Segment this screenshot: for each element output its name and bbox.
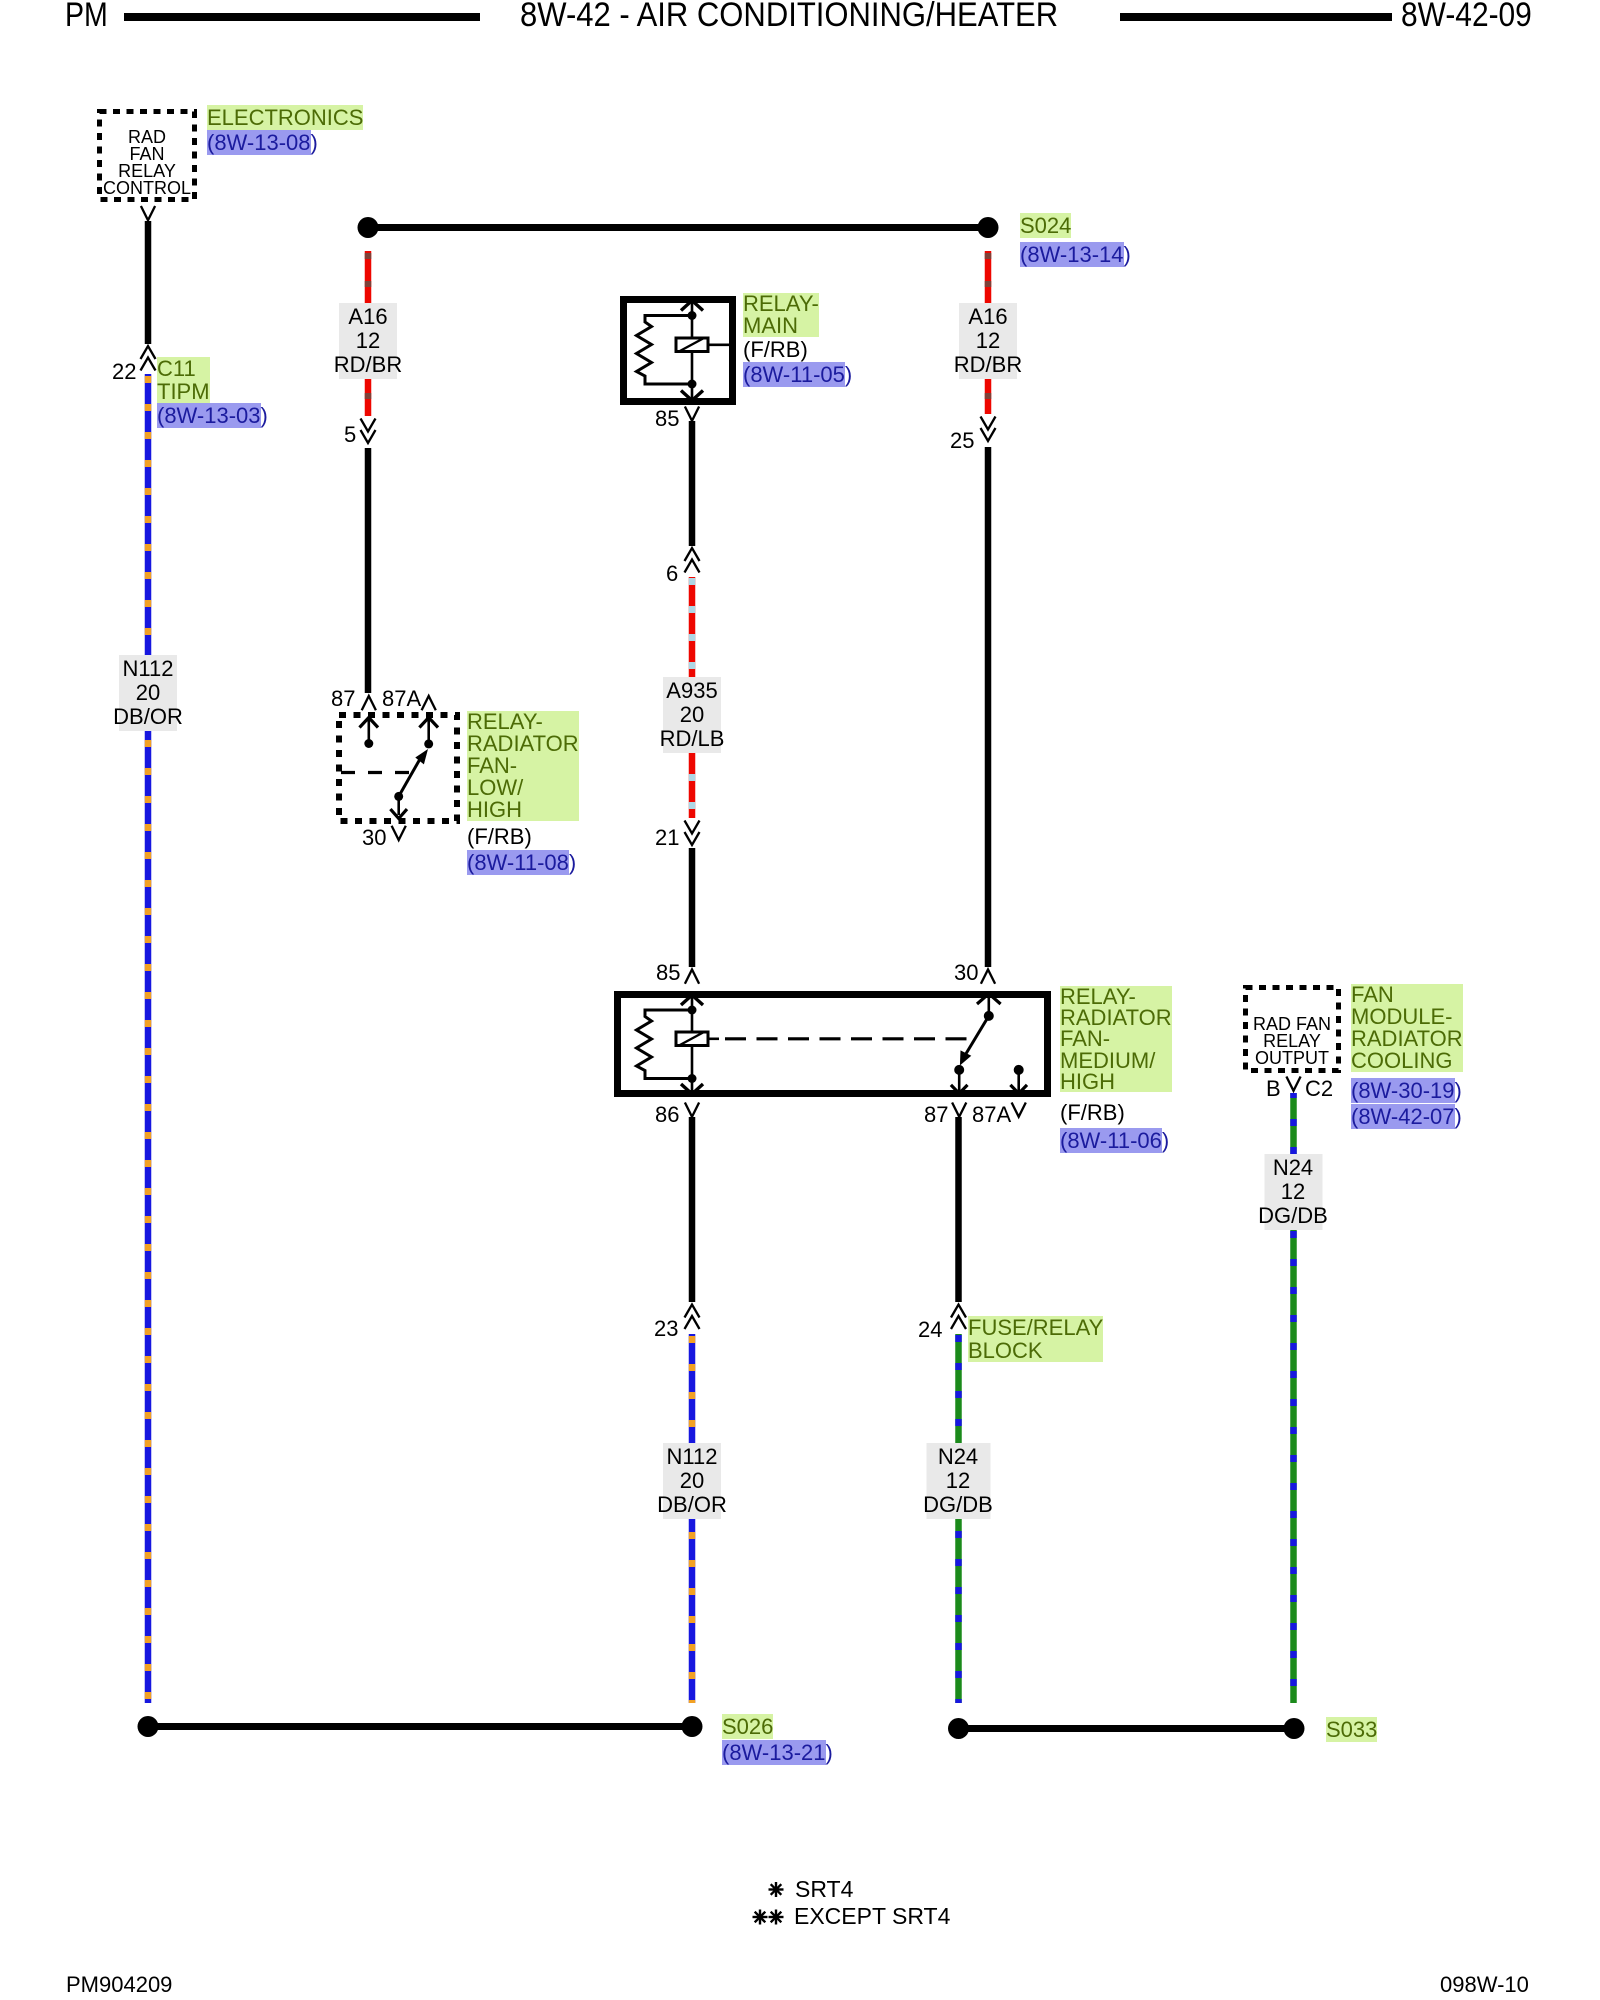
pin number 5 (344, 423, 356, 446)
node S033 left dot (948, 1718, 969, 1739)
pin number 22 (112, 360, 136, 383)
wire A16 12 RD/BR left (red with brown tracer) (365, 251, 372, 416)
relay K3 coil bottom arrow (681, 1084, 703, 1094)
label (F/RB) relay K1 (743, 338, 808, 361)
relay K2 RELAY-RADIATOR FAN-LOW/HIGH dashed box (339, 715, 457, 821)
ref (8W-11-06) (1060, 1129, 1169, 1152)
connector pin 5 double chevron (361, 419, 376, 444)
connector U1 RAD FAN RELAY CONTROL dashed box (100, 112, 195, 200)
relay K2 pin 30 lead (394, 792, 403, 801)
pin number 30 relay K3 (954, 961, 978, 984)
header label PM (65, 0, 108, 32)
wire N24 12 DG/DB left (dark green with dark blue tracer) (955, 1334, 962, 1703)
gray label bg N24 12 DG/DB left (927, 1443, 991, 1519)
wire label N112 20 DB/OR center (657, 1445, 727, 1517)
pin number 86 relay K3 (655, 1103, 679, 1126)
wire N24 12 DG/DB right (dark green with dark blue tracer) (1290, 1093, 1297, 1703)
header title (520, 0, 1058, 32)
wire label A935 20 RD/LB (660, 679, 725, 751)
node S026 left dot (138, 1716, 159, 1737)
label (F/RB) relay K3 (1060, 1101, 1125, 1124)
wire black from RAD FAN RELAY CONTROL pin 22 (145, 221, 152, 344)
connector pin 23 double chevron (685, 1305, 700, 1330)
relay K3 mechanical dashed link (725, 1037, 975, 1040)
note asterisk SRT4 (769, 1882, 784, 1897)
wire A16 12 RD/BR right (red with brown tracer) (985, 251, 992, 414)
node S033 right dot (1284, 1718, 1305, 1739)
label (F/RB) relay K2 (467, 825, 532, 848)
gray label bg N112 20 DB/OR center (663, 1443, 721, 1519)
pin 30 chevron below relay K2 (392, 826, 406, 840)
relay K1 coil right lead (708, 343, 731, 346)
ref (8W-42-07) (1351, 1105, 1462, 1128)
pin number 30 relay K2 (362, 826, 386, 849)
pin 87A chevron above relay K2 (422, 696, 436, 710)
pin 85 chevron below relay K1 (685, 407, 699, 421)
splice bus S024 top (368, 224, 988, 231)
pin number 23 (654, 1317, 678, 1340)
pin 87A chevron below relay K3 (1012, 1103, 1026, 1117)
label C11 TIPM (157, 357, 210, 403)
relay K3 coil symbol (676, 1032, 708, 1046)
pin 87 chevron below relay K3 (952, 1103, 966, 1117)
gray label bg A16 12 RD/BR left (339, 303, 397, 379)
relay K2 switch blade (399, 756, 422, 797)
pin 87 chevron above relay K2 (362, 696, 376, 710)
relay K1 bottom arrow (681, 391, 703, 401)
wire black S024 to relay K3 pin 30 (985, 447, 992, 967)
relay K3 pin 87 lead (954, 1065, 964, 1075)
wire black relay K3 pin 86 down (689, 1117, 696, 1302)
relay K1 coil vertical lead (691, 302, 694, 399)
relay K3 pin 87A lead (1014, 1065, 1024, 1075)
splice bus S033 (959, 1725, 1295, 1732)
label ELECTRONICS (207, 106, 363, 129)
pin 86 chevron below relay K3 (685, 1103, 699, 1117)
wire label A16 12 RD/BR left (334, 305, 402, 377)
footer left PM904209 (66, 1973, 172, 1996)
note EXCEPT SRT4 (794, 1903, 950, 1929)
wire A935 20 RD/LB (red with light blue tracer) (689, 577, 696, 818)
connector pin 6 double chevron (685, 548, 700, 573)
relay K1 RELAY-MAIN box (624, 300, 733, 402)
relay K1 coil top node (688, 311, 697, 320)
relay K1 top arrow (681, 301, 703, 311)
node S024 left dot (358, 217, 379, 238)
pin number 85 relay K3 (656, 961, 680, 984)
gray label bg N24 12 DG/DB right (1265, 1154, 1323, 1230)
wire black relay K1 pin 85 down (689, 421, 696, 546)
note asterisks EXCEPT SRT4 (753, 1910, 784, 1925)
relay K3 coil right lead (708, 1038, 719, 1041)
relay K1 coil bottom node (688, 380, 697, 389)
wire label N24 12 DG/DB right (1258, 1156, 1328, 1228)
pin number 87A relay K2 (382, 687, 421, 710)
relay K3 RELAY-RADIATOR FAN-MEDIUM/HIGH box (618, 995, 1048, 1094)
relay K1 coil symbol (676, 338, 708, 352)
gray label bg A935 20 RD/LB (663, 677, 721, 753)
relay K3 resistor R (637, 1010, 693, 1079)
relay K3 coil top node (688, 1006, 697, 1015)
pin number 25 (950, 429, 974, 452)
pin B chevron below RAD FAN RELAY OUTPUT (1286, 1077, 1300, 1091)
label RELAY-RADIATOR FAN-MEDIUM/HIGH (1060, 986, 1172, 1092)
ref (8W-13-14) (1020, 243, 1131, 266)
pin number 6 (666, 562, 678, 585)
wire black pin 21 to relay K3 pin 85 (689, 848, 696, 967)
label RELAY-RADIATOR FAN-LOW/HIGH (467, 711, 579, 821)
wire black relay K3 pin 87 down (955, 1117, 962, 1302)
node S024 right dot (978, 217, 999, 238)
pin number 24 (918, 1318, 942, 1341)
pin number 87 relay K2 (331, 687, 355, 710)
label RELAY-MAIN (743, 293, 819, 337)
connector C2 RAD FAN RELAY OUTPUT dashed box (1246, 988, 1339, 1071)
ref (8W-13-21) (722, 1741, 833, 1764)
label S026 (722, 1715, 773, 1738)
relay K3 pin 30 lead arrow (977, 994, 1001, 1004)
note SRT4 (795, 1876, 853, 1902)
relay K3 coil top arrow (681, 995, 703, 1005)
wire black pin 5 to relay pin 87 (365, 448, 372, 693)
header page number (1401, 0, 1532, 32)
pin number 85 relay K1 (655, 407, 679, 430)
relay K3 switch blade (964, 1016, 989, 1057)
pin number 87A relay K3 (972, 1103, 1011, 1126)
relay K1 resistor R (637, 316, 693, 385)
label FAN MODULE-RADIATOR COOLING (1351, 984, 1463, 1072)
pin 30 chevron above relay K3 (981, 970, 995, 984)
ref (8W-13-08) (207, 131, 318, 154)
ref (8W-30-19) (1351, 1079, 1462, 1102)
pin number 21 (655, 826, 679, 849)
ref (8W-11-08) (467, 851, 576, 874)
label RAD FAN RELAY CONTROL (99, 129, 195, 197)
pin letter B connector C2 (1266, 1077, 1281, 1100)
pin letter C2 connector C2 (1305, 1077, 1333, 1100)
relay K3 coil bottom node (688, 1074, 697, 1083)
label FUSE/RELAY BLOCK (968, 1316, 1103, 1362)
connector pin 25 double chevron (981, 417, 996, 442)
wire N112 20 DB/OR left (dark blue with orange tracer) (145, 374, 152, 1703)
relay K2 mechanical dashed link (341, 771, 411, 774)
splice bus S026 (148, 1723, 692, 1730)
connector pin 24 double chevron (951, 1305, 966, 1330)
pin chevron below RAD FAN RELAY CONTROL (141, 206, 155, 220)
relay K2 pin 87 lead arrow (360, 718, 379, 728)
wire label N24 12 DG/DB left (923, 1445, 993, 1517)
header rule left (124, 13, 480, 21)
label RAD FAN RELAY OUTPUT (1245, 1016, 1339, 1067)
connector pin 21 double chevron (685, 821, 700, 846)
node S026 right dot (682, 1716, 703, 1737)
label S033 (1326, 1718, 1377, 1741)
wire label N112 20 DB/OR left (113, 657, 183, 729)
footer right 098W-10 (1440, 1973, 1529, 1996)
wire N112 20 DB/OR center (dark blue with orange tracer) (689, 1334, 696, 1703)
header rule right (1120, 13, 1392, 21)
gray label bg N112 20 DB/OR left (119, 655, 177, 731)
ref (8W-11-05) (743, 363, 852, 386)
ref (8W-13-03) (157, 404, 268, 427)
wire label A16 12 RD/BR right (954, 305, 1022, 377)
pin 85 chevron above relay K3 (685, 970, 699, 984)
gray label bg A16 12 RD/BR right (959, 303, 1017, 379)
pin number 87 relay K3 (924, 1103, 948, 1126)
label S024 (1020, 214, 1071, 237)
relay K2 pin 87A lead arrow (419, 718, 438, 728)
relay K3 coil vertical lead (691, 997, 694, 1092)
connector C11 pin 22 double chevron (141, 346, 156, 371)
